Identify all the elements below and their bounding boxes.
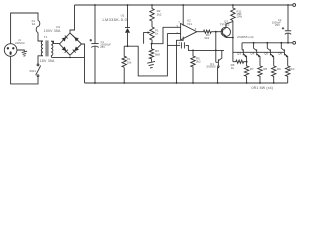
collector rail xyxy=(242,42,293,44)
node C1 bottom xyxy=(94,82,96,84)
transistor Q6 xyxy=(278,43,288,66)
svg-text:LM338K-5.0: LM338K-5.0 xyxy=(103,17,128,22)
node bridge B xyxy=(69,57,71,59)
transistor Q5 xyxy=(264,43,274,66)
svg-text:2N3055: 2N3055 xyxy=(206,65,216,69)
resistor R6 xyxy=(231,60,247,70)
op-amp U2 741 xyxy=(176,19,196,45)
node drive xyxy=(215,31,217,33)
capacitor C3 feedback xyxy=(167,42,224,50)
svg-text:2N3055 (x4): 2N3055 (x4) xyxy=(237,35,254,39)
wire secondary top to bridge left xyxy=(51,41,59,43)
wire secondary bottom / AC lower run xyxy=(51,56,84,58)
svg-text:SW1: SW1 xyxy=(29,69,36,73)
node Q2 emitter xyxy=(232,37,234,39)
wire switch to transformer primary bottom xyxy=(38,56,43,64)
svg-text:Q6: Q6 xyxy=(278,52,282,56)
resistor R7 xyxy=(244,62,254,83)
bridge rectifier D1 xyxy=(44,25,82,55)
diode D1b xyxy=(74,37,79,42)
diode D1d xyxy=(74,47,79,52)
svg-text:Q4: Q4 xyxy=(250,52,254,56)
ground (signal) xyxy=(147,61,155,68)
wire bridge + to top rail xyxy=(70,5,75,33)
wire fuse to transformer primary xyxy=(38,33,43,42)
wire plug side to ground xyxy=(17,50,24,51)
node R5 top xyxy=(192,50,194,52)
resistor R1 xyxy=(122,46,132,83)
svg-text:0R1 5W (x4): 0R1 5W (x4) xyxy=(252,86,274,90)
resistor R11 xyxy=(231,5,243,38)
transistor Q2 TIP122 xyxy=(220,20,233,38)
resistor R3 xyxy=(149,44,160,62)
wire bridge right to minus rail xyxy=(82,44,85,83)
resistor R10 xyxy=(286,66,295,83)
output terminal mid xyxy=(293,41,296,44)
wire drive node down xyxy=(215,32,217,51)
bottom rail xyxy=(85,82,288,84)
node ref xyxy=(127,45,129,47)
svg-text:3A: 3A xyxy=(32,22,36,26)
zener U1 LM338K-5.0 xyxy=(103,5,131,46)
resistor R9 xyxy=(272,66,282,83)
capacitor C2 xyxy=(272,4,291,43)
transistor Q3 xyxy=(237,43,247,62)
diode D1a xyxy=(62,37,66,42)
node C1 top xyxy=(94,4,96,6)
top rail xyxy=(75,4,293,6)
svg-text:3k3: 3k3 xyxy=(204,36,209,40)
base rail Q3-Q6 xyxy=(233,51,285,53)
svg-text:6k8: 6k8 xyxy=(155,52,160,56)
svg-text:Q5: Q5 xyxy=(264,52,268,56)
svg-text:741: 741 xyxy=(187,22,192,26)
node R1 bottom xyxy=(123,82,125,84)
svg-text:2k2: 2k2 xyxy=(196,60,201,64)
ground (mains) xyxy=(22,51,27,56)
svg-text:20W: 20W xyxy=(237,14,243,18)
svg-text:R7: R7 xyxy=(250,67,254,71)
transformer T1 xyxy=(40,35,55,63)
plug J1 xyxy=(4,38,25,56)
resistor R8 xyxy=(258,66,268,83)
svg-text:2k2: 2k2 xyxy=(157,12,162,16)
svg-text:1k: 1k xyxy=(231,66,235,70)
output terminal + xyxy=(293,4,296,7)
svg-text:R10: R10 xyxy=(289,67,295,71)
svg-text:100V 35A: 100V 35A xyxy=(44,29,61,33)
diode D1c xyxy=(62,47,67,52)
resistor R5 xyxy=(191,50,201,83)
svg-text:18V 35A: 18V 35A xyxy=(40,59,55,63)
wire ref to ground box xyxy=(124,34,167,76)
transistor Q1 xyxy=(206,50,222,83)
wire plug top to fuse xyxy=(11,13,38,44)
svg-text:240VAC: 240VAC xyxy=(15,41,25,45)
wire wiper to op-amp pin 3 xyxy=(152,27,181,43)
wire emitter node down xyxy=(232,38,234,62)
transistor Q4 xyxy=(250,43,260,66)
svg-text:T1: T1 xyxy=(44,35,48,39)
capacitor C1 xyxy=(90,5,112,83)
node op-amp supply xyxy=(182,4,184,6)
node P1 wiper junction xyxy=(151,43,153,45)
resistor R2 xyxy=(150,5,162,27)
svg-text:1k: 1k xyxy=(155,32,159,36)
potentiometer P1 xyxy=(144,27,159,44)
wire pin 7 xyxy=(182,5,184,26)
svg-text:R9: R9 xyxy=(277,67,281,71)
svg-text:R8: R8 xyxy=(263,67,267,71)
svg-text:10k: 10k xyxy=(127,61,132,65)
wire pin 4 to bottom rail xyxy=(177,37,184,83)
op-amp output / resistor R4 xyxy=(197,30,223,40)
switch SW1 xyxy=(29,64,40,77)
node R2 top xyxy=(151,4,153,6)
fuse F1 xyxy=(36,21,40,33)
svg-text:25V: 25V xyxy=(275,23,280,27)
wire pin 2 xyxy=(167,33,180,35)
svg-text:Q3: Q3 xyxy=(237,52,241,56)
svg-text:25V: 25V xyxy=(100,45,105,49)
node R11 top xyxy=(232,4,234,6)
node U1 top xyxy=(127,4,129,6)
svg-text:TIP122: TIP122 xyxy=(220,22,230,26)
wire plug bottom to switch xyxy=(11,56,38,84)
